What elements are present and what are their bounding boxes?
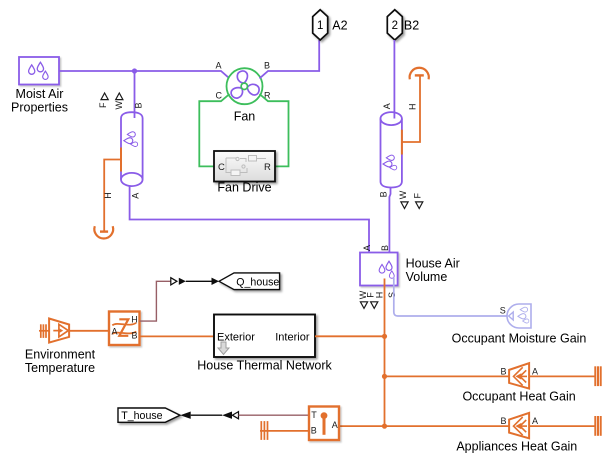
block Occupant Heat Gain xyxy=(462,363,575,403)
block House Air Volume xyxy=(360,253,460,286)
svg-text:A: A xyxy=(332,420,338,430)
svg-text:Fan Drive: Fan Drive xyxy=(217,181,271,195)
junction dot xyxy=(132,68,137,73)
svg-text:B: B xyxy=(501,367,507,377)
junction dot trunk-interior xyxy=(382,334,387,339)
wire fan C to fan drive C (green) xyxy=(199,94,229,166)
thermal reference right (occupant) xyxy=(595,366,600,386)
svg-text:A: A xyxy=(216,61,222,71)
insulator cap (left) xyxy=(94,226,113,238)
label W hav bottom + triangle xyxy=(358,290,368,308)
svg-text:House Air: House Air xyxy=(406,257,460,271)
solid arrow after converter xyxy=(179,278,186,285)
unconnected port F pipe1 xyxy=(98,93,108,108)
wire hav S to occupant moisture gain (lavender) xyxy=(394,278,508,317)
hollow triangle converter (Q_house) xyxy=(171,278,177,285)
unconnected port F pipe2 xyxy=(412,193,422,209)
hollow triangle converter (T_house) xyxy=(232,412,238,419)
svg-text:A: A xyxy=(382,103,392,109)
svg-text:T: T xyxy=(311,410,317,420)
block Occupant Moisture Gain xyxy=(452,304,587,345)
svg-text:A: A xyxy=(532,416,538,426)
wire interior to trunk xyxy=(315,335,385,337)
svg-text:W: W xyxy=(398,190,408,199)
svg-text:B: B xyxy=(311,425,317,435)
svg-text:H: H xyxy=(103,192,113,199)
svg-text:B: B xyxy=(132,331,138,341)
thermal reference right (appliances) xyxy=(595,416,600,436)
svg-text:House Thermal Network: House Thermal Network xyxy=(197,359,332,373)
wire occupant A to thermal reference xyxy=(529,375,594,377)
pipe1 (left moist air pipe) xyxy=(121,112,143,186)
svg-text:S: S xyxy=(387,292,397,298)
svg-text:Environment: Environment xyxy=(25,348,96,362)
arrowhead at Q_house xyxy=(212,278,220,285)
block temperature sensor xyxy=(309,407,339,441)
wire appliances A to thermal reference xyxy=(529,425,594,427)
wire to Q_house tag xyxy=(186,280,212,282)
wire Z block H to converter (maroon) xyxy=(140,281,171,321)
wire moist air out to junction and fan A xyxy=(59,71,230,78)
svg-text:F: F xyxy=(412,193,422,199)
svg-text:Occupant Moisture Gain: Occupant Moisture Gain xyxy=(452,331,587,345)
goto tag Q_house xyxy=(219,273,280,290)
wire pipe1 H to insulator xyxy=(104,160,121,232)
block Moist Air Properties xyxy=(11,57,68,115)
wire hav H trunk (orange) xyxy=(384,279,386,427)
wire pipe1 A to house air volume A xyxy=(130,186,369,260)
svg-text:S: S xyxy=(500,306,506,316)
block House Thermal Network xyxy=(197,315,332,373)
wire env temp to Z block A xyxy=(69,330,109,332)
solid arrow (T_house side) xyxy=(222,412,232,419)
wire fan R to fan drive R (green) xyxy=(260,94,289,166)
junction dot trunk-appliances xyxy=(382,424,387,429)
svg-text:1: 1 xyxy=(317,20,323,32)
junction dot trunk-occupant xyxy=(382,374,387,379)
svg-text:Temperature: Temperature xyxy=(25,361,95,375)
svg-text:F: F xyxy=(98,102,108,108)
svg-text:Moist Air: Moist Air xyxy=(16,87,64,101)
wire reference to sensor B xyxy=(260,430,309,432)
from tag T_house xyxy=(118,408,180,422)
block Fan Drive xyxy=(214,151,275,195)
wire trunk to occupant heat gain B xyxy=(385,375,510,377)
svg-text:B: B xyxy=(264,61,270,71)
svg-text:W: W xyxy=(114,101,124,110)
block Appliances Heat Gain xyxy=(456,413,577,453)
svg-text:2: 2 xyxy=(392,20,398,32)
wire T_house to converter xyxy=(191,414,223,416)
svg-text:C: C xyxy=(218,162,225,173)
svg-text:T_house: T_house xyxy=(121,410,162,422)
port B2 hexagon xyxy=(387,10,419,40)
wire Z block B to house thermal network exterior xyxy=(140,335,215,337)
block Environment Temperature (temperature source) xyxy=(25,319,96,376)
svg-text:Properties: Properties xyxy=(11,101,68,115)
svg-text:Occupant Heat Gain: Occupant Heat Gain xyxy=(462,389,575,403)
wire pipe2 H to insulator (right) xyxy=(402,76,420,142)
wire pipe2 B down to house air volume B xyxy=(389,187,390,260)
label F hav bottom + triangle xyxy=(366,292,378,309)
svg-text:Q_house: Q_house xyxy=(236,276,279,288)
pipe1 H port segment on left edge xyxy=(120,148,122,172)
port A2 hexagon xyxy=(313,10,348,40)
svg-text:B: B xyxy=(380,245,390,251)
svg-text:A2: A2 xyxy=(332,19,347,33)
svg-text:Fan: Fan xyxy=(234,110,256,124)
svg-text:Volume: Volume xyxy=(406,270,448,284)
wire trunk/sensor A to appliances heat gain B xyxy=(339,425,509,427)
svg-text:B: B xyxy=(379,191,389,197)
svg-text:A: A xyxy=(112,326,118,336)
wire port B2 down to pipe2 A xyxy=(393,40,395,119)
svg-text:H: H xyxy=(131,315,138,325)
svg-text:Appliances Heat Gain: Appliances Heat Gain xyxy=(456,439,577,453)
svg-text:C: C xyxy=(216,91,223,101)
fan (green circle with purple blades) xyxy=(227,68,263,123)
svg-text:Interior: Interior xyxy=(275,331,310,343)
svg-text:H: H xyxy=(374,292,384,299)
unconnected port W pipe2 xyxy=(398,190,408,208)
wire junction down to pipe1 B xyxy=(134,71,136,118)
pipe2 H port segment on right edge xyxy=(401,130,403,155)
svg-text:B: B xyxy=(501,416,507,426)
svg-text:A: A xyxy=(532,367,538,377)
environment temperature 3-bar reference xyxy=(39,324,49,338)
unconnected port W pipe1 xyxy=(114,93,124,110)
svg-text:B: B xyxy=(134,102,144,108)
svg-text:R: R xyxy=(264,162,271,173)
wire converter to sensor T (maroon) xyxy=(239,414,310,416)
svg-text:A: A xyxy=(362,245,372,251)
insulator cap (right) xyxy=(410,68,429,80)
svg-text:H: H xyxy=(408,103,418,110)
svg-text:B2: B2 xyxy=(404,19,419,33)
pipe2 (right moist air pipe) xyxy=(381,112,402,187)
arrowhead at T_house xyxy=(180,412,191,419)
block heat transfer Z xyxy=(109,312,140,346)
wire fan B to port A2 xyxy=(260,40,320,78)
svg-text:A: A xyxy=(130,193,140,199)
sensor B thermal reference xyxy=(261,421,267,440)
